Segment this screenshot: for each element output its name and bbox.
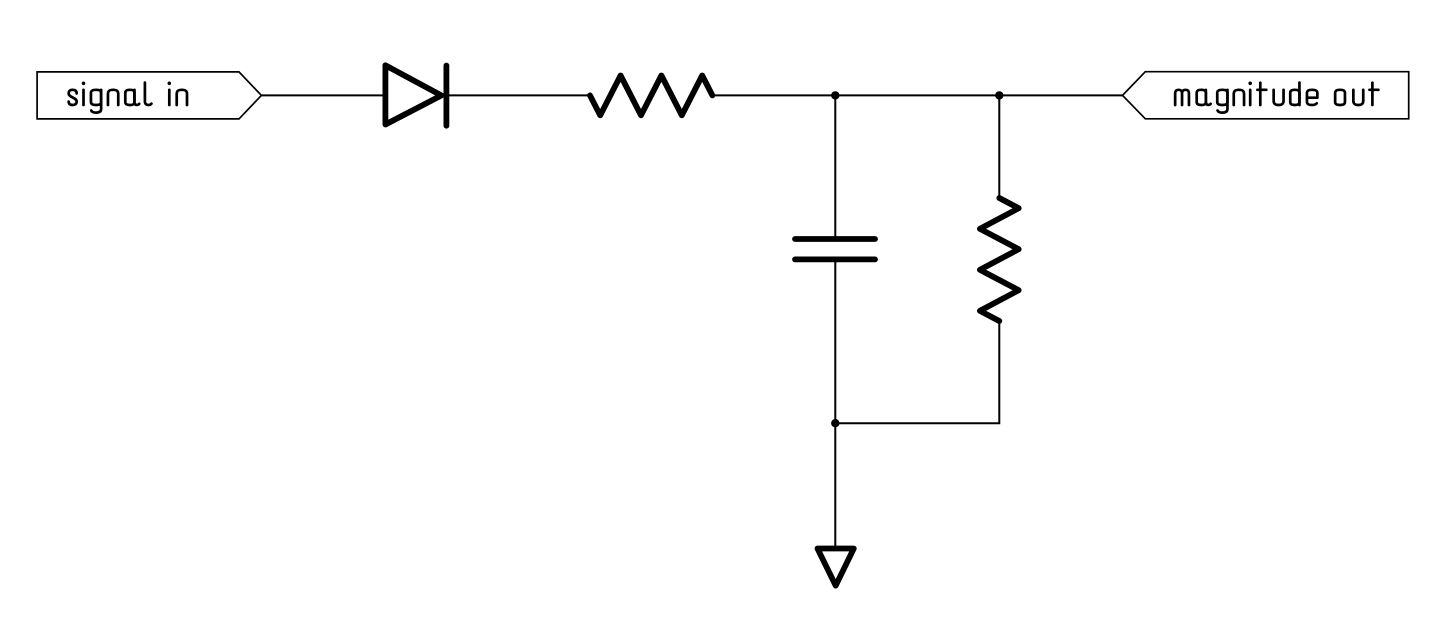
input flag "signal in" bbox=[37, 72, 261, 119]
wire W8: node C down to ground bbox=[834, 423, 836, 548]
label text "magnitude out" bbox=[1175, 82, 1378, 113]
wire W4: node A down to capacitor C1 bbox=[834, 95, 836, 237]
junction node A (top of C1) bbox=[831, 91, 839, 99]
wire W5: C1 bottom to node C bbox=[834, 262, 836, 424]
wire W2: D1 cathode to resistor R1 bbox=[446, 94, 590, 96]
wire W1: input flag to diode D1 bbox=[261, 94, 385, 96]
junction node B (top of R2) bbox=[995, 91, 1003, 99]
resistor R2 (shunt, vertical) bbox=[980, 198, 1019, 321]
resistor R1 (series) bbox=[590, 76, 712, 116]
junction node C (bottom) bbox=[831, 419, 839, 427]
output flag "magnitude out" bbox=[1123, 72, 1409, 119]
diode D1 bbox=[385, 65, 446, 125]
wire W6: node C to R2 bottom bbox=[835, 321, 999, 423]
capacitor C1 bbox=[795, 239, 875, 259]
ground symbol GND bbox=[818, 549, 854, 586]
wire W7: node B down to R2 top bbox=[998, 95, 1000, 198]
label text "signal in" bbox=[69, 82, 187, 113]
wire W3: R1 to output flag bbox=[712, 94, 1122, 96]
